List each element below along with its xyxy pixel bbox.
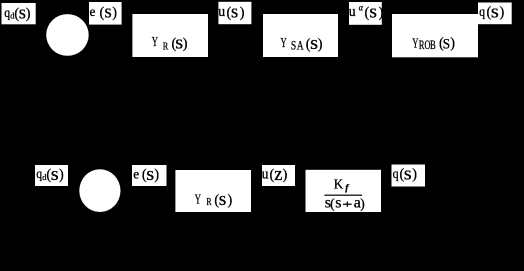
svg-text:): ) (500, 5, 505, 21)
block YR(s) controller (top row) (132, 14, 208, 57)
svg-text:s: s (219, 189, 227, 209)
node u^alpha(s) label box (top row) (349, 2, 384, 25)
fraction bar (324, 195, 362, 196)
svg-text:s: s (491, 2, 499, 22)
svg-text:e: e (90, 4, 96, 19)
node u(s) label box (top row) (218, 2, 251, 24)
svg-text:Y: Y (195, 193, 201, 207)
svg-text:): ) (379, 5, 384, 21)
svg-text:): ) (59, 167, 64, 183)
summing junction (top row) (46, 14, 89, 56)
svg-text:): ) (112, 5, 117, 21)
svg-text:z: z (274, 165, 282, 185)
block YSA(s) servo amplifier (top row) (263, 14, 338, 57)
svg-text:): ) (183, 36, 188, 52)
svg-text:): ) (360, 196, 365, 211)
svg-text:s: s (51, 165, 59, 185)
block Kf over s(s+a) plant transfer function (bottom row) (306, 170, 382, 212)
svg-text:): ) (240, 5, 245, 21)
svg-text:u: u (218, 4, 225, 20)
svg-text:s: s (335, 195, 341, 212)
svg-text:): ) (228, 192, 233, 208)
svg-text:Y: Y (281, 36, 287, 50)
svg-text:s: s (146, 165, 154, 185)
block YR(s) controller (bottom row) (175, 170, 251, 212)
svg-text:s: s (105, 3, 112, 23)
node u(z) label box (bottom row) (262, 165, 295, 186)
svg-text:e: e (133, 166, 139, 181)
svg-text:α: α (359, 2, 364, 13)
svg-text:S: S (443, 36, 451, 53)
summing junction (bottom row) (79, 169, 120, 212)
plus sign (343, 204, 352, 205)
svg-text:s: s (369, 2, 377, 22)
svg-text:B: B (430, 38, 436, 52)
svg-text:Y: Y (412, 37, 418, 51)
svg-text:q: q (479, 3, 485, 19)
svg-text:R: R (206, 197, 212, 208)
node e(s) error label box (bottom row) (132, 165, 167, 186)
svg-text:u: u (262, 166, 269, 182)
svg-text:A: A (297, 39, 304, 52)
node q(s) output label box (bottom row) (392, 164, 426, 186)
svg-text:K: K (334, 176, 344, 191)
svg-text:): ) (450, 36, 455, 52)
svg-text:u: u (349, 4, 356, 20)
block YROB(S) robot plant (top row) (392, 14, 478, 57)
svg-text:S: S (291, 39, 296, 52)
svg-text:): ) (318, 36, 323, 52)
svg-text:q: q (393, 165, 399, 181)
svg-text:s: s (231, 3, 238, 23)
node e(s) error label box (top row) (89, 2, 122, 25)
svg-text:): ) (412, 167, 417, 183)
svg-text:): ) (154, 167, 159, 183)
svg-text:R: R (163, 40, 169, 52)
node qd(s) input label box (bottom row) (35, 165, 68, 186)
svg-text:): ) (283, 167, 288, 183)
svg-text:s: s (404, 164, 412, 184)
node q(s) output label box (top row) (478, 2, 512, 24)
svg-text:): ) (26, 6, 31, 22)
node qd(s) input label box (top row) (2, 3, 36, 24)
svg-text:Y: Y (152, 35, 158, 49)
